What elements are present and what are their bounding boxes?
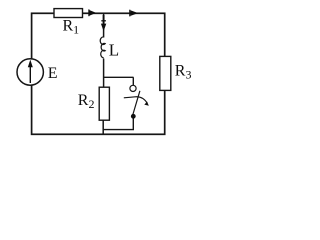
svg-text:R2: R2 xyxy=(78,92,95,111)
resistor R2 xyxy=(99,87,109,120)
wire outer loop xyxy=(32,13,165,134)
wire L-branch vertical from top node xyxy=(103,13,105,37)
wire bottom jog from R2 drop to switch xyxy=(103,118,133,130)
svg-text:R3: R3 xyxy=(175,63,192,82)
wire below L to junction xyxy=(103,59,105,88)
switch bottom terminal dot xyxy=(131,114,136,119)
svg-text:E: E xyxy=(48,65,58,82)
switch blade xyxy=(133,91,140,116)
resistor R3 xyxy=(160,56,171,90)
wire R2 bottom drop xyxy=(102,120,104,134)
svg-text:L: L xyxy=(109,41,119,60)
switch action curved arrow xyxy=(124,97,147,104)
svg-text:R1: R1 xyxy=(63,17,80,36)
switch contact circle xyxy=(130,85,136,91)
inductor L xyxy=(100,37,105,58)
resistor R1 xyxy=(54,9,83,18)
current arrow i3 on top wire before right corner xyxy=(129,10,131,17)
source E arrow xyxy=(29,66,31,84)
current arrow down into L branch xyxy=(103,15,105,25)
current arrow i1 on top wire after R1 xyxy=(88,9,90,16)
wire switch branch horizontal xyxy=(103,76,134,78)
wire switch branch down to contact xyxy=(132,77,134,85)
source E circle xyxy=(17,59,43,85)
